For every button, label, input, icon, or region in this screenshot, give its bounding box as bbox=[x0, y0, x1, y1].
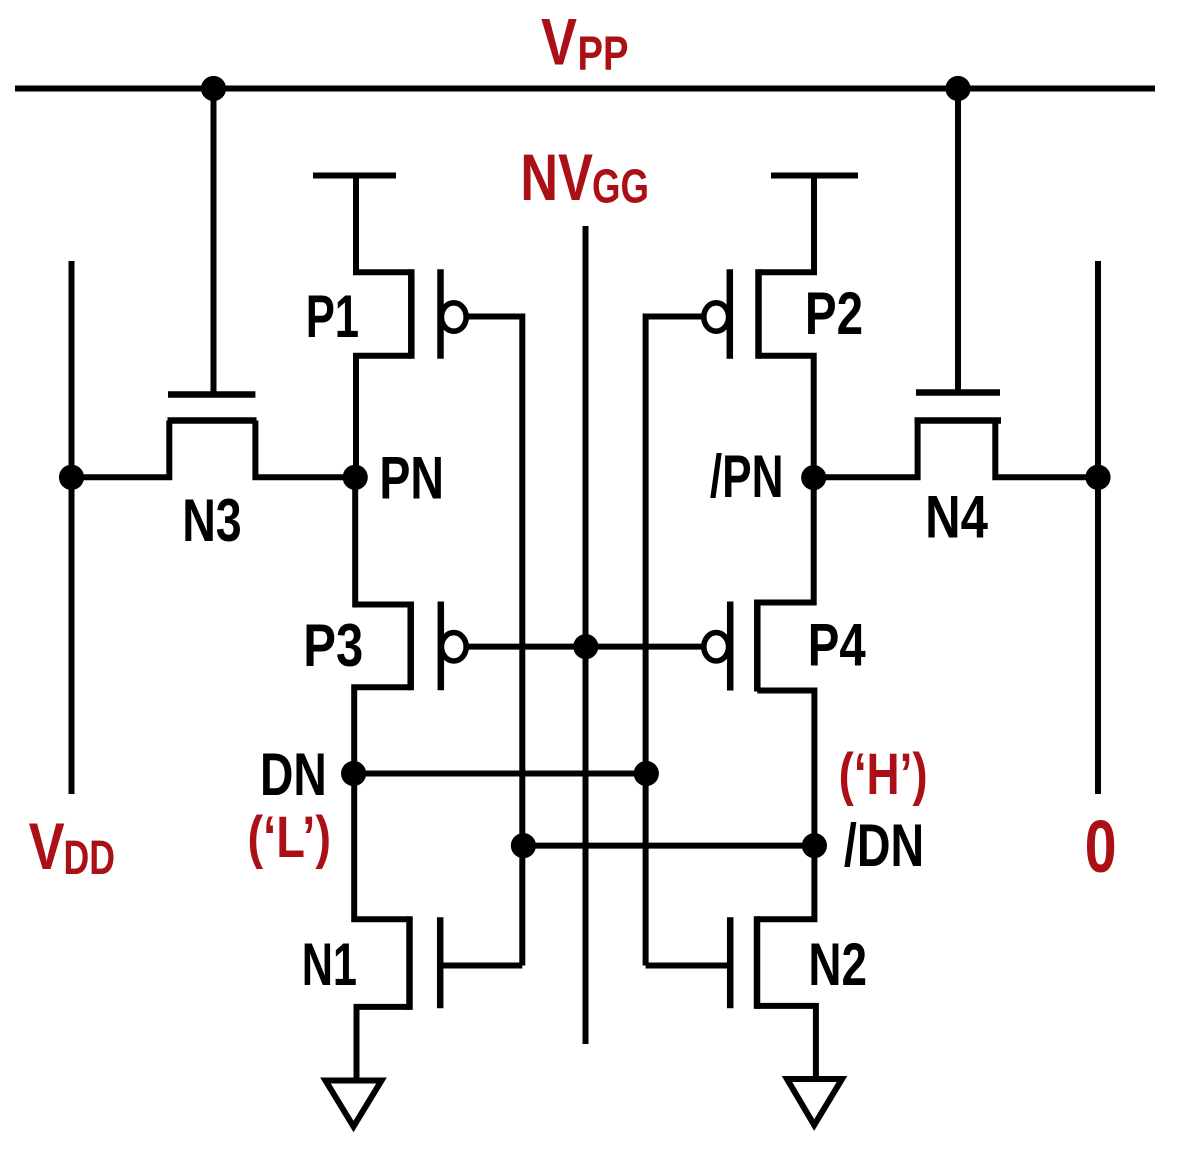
svg-text:/PN: /PN bbox=[710, 443, 784, 510]
label VDD bbox=[29, 809, 115, 885]
wire N1 gate bbox=[440, 963, 522, 969]
node /DN-P1gate junction bbox=[511, 833, 536, 858]
wire VDD vertical bbox=[69, 261, 75, 794]
ground left bbox=[326, 1081, 382, 1127]
svg-text:V: V bbox=[29, 809, 65, 883]
svg-text:GG: GG bbox=[592, 161, 649, 214]
transistor N1 bbox=[354, 774, 440, 1081]
transistor P4 bbox=[704, 477, 815, 846]
transistor P1 bbox=[313, 176, 466, 478]
wire VPP rail bbox=[15, 86, 1155, 92]
wire N3 gate stem bbox=[211, 89, 217, 395]
svg-text:N4: N4 bbox=[925, 484, 988, 551]
node VDD junction bbox=[59, 465, 84, 490]
svg-text:/DN: /DN bbox=[844, 812, 924, 879]
node VPP-right junction bbox=[945, 76, 970, 101]
svg-text:PP: PP bbox=[578, 28, 629, 81]
transistor P2 bbox=[704, 176, 858, 478]
svg-text:V: V bbox=[541, 5, 577, 79]
wire /DN cross-couple bbox=[523, 843, 814, 849]
transistor P3 bbox=[354, 477, 466, 774]
svg-text:0: 0 bbox=[1085, 805, 1117, 888]
wire P2 gate to DN line bbox=[646, 317, 703, 966]
wire P1 gate to /DN line bbox=[468, 317, 523, 966]
svg-text:(‘H’): (‘H’) bbox=[839, 742, 928, 807]
node DN bbox=[341, 761, 366, 786]
svg-text:N2: N2 bbox=[808, 931, 867, 998]
transistor N2 bbox=[730, 846, 816, 1079]
node /PN bbox=[801, 465, 826, 490]
node VPP-left junction bbox=[201, 76, 226, 101]
svg-text:NV: NV bbox=[520, 140, 593, 214]
wire NVGG gate bus P3-P4 bbox=[467, 644, 703, 650]
label NVGG bbox=[520, 140, 649, 214]
svg-text:N3: N3 bbox=[182, 487, 242, 554]
label VPP bbox=[541, 5, 629, 81]
ground right bbox=[787, 1079, 842, 1125]
node PN bbox=[343, 465, 368, 490]
svg-text:DD: DD bbox=[64, 832, 116, 885]
svg-text:(‘L’): (‘L’) bbox=[248, 805, 332, 870]
wire DN cross-couple bbox=[354, 771, 647, 777]
svg-text:DN: DN bbox=[260, 741, 327, 808]
svg-text:P2: P2 bbox=[805, 280, 863, 347]
wire N4 drain to right rail bbox=[995, 421, 1098, 478]
svg-text:P1: P1 bbox=[306, 283, 359, 350]
wire N3 drain to PN bbox=[255, 421, 355, 478]
wire N2 gate bbox=[646, 963, 731, 969]
wire VDD to N3 source bbox=[72, 421, 170, 478]
transistor N4 bbox=[915, 393, 1002, 421]
wire NVGG vertical bbox=[583, 226, 589, 1044]
svg-text:PN: PN bbox=[379, 445, 444, 512]
node NVGG junction bbox=[573, 634, 598, 659]
wire /PN to N4 source bbox=[814, 421, 918, 478]
svg-text:P3: P3 bbox=[303, 612, 363, 679]
node /DN bbox=[802, 833, 827, 858]
node DN-P2gate junction bbox=[634, 761, 659, 786]
wire right vertical (0) bbox=[1095, 261, 1101, 794]
svg-text:P4: P4 bbox=[808, 612, 866, 679]
wire N4 gate stem bbox=[955, 89, 961, 393]
transistor N3 bbox=[168, 395, 257, 421]
svg-text:N1: N1 bbox=[302, 931, 357, 998]
node right junction bbox=[1085, 465, 1110, 490]
